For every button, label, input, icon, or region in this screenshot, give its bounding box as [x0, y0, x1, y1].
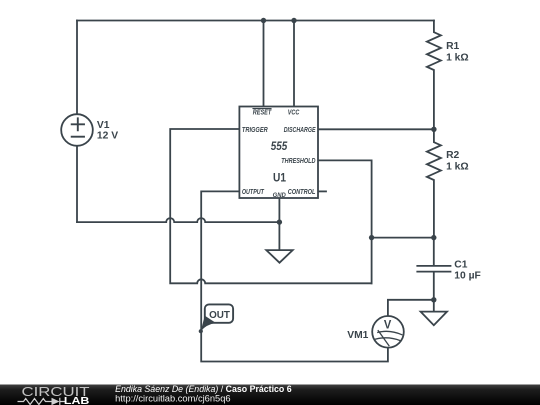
- svg-text:555: 555: [271, 141, 288, 153]
- node dot THRESHOLD branch: [369, 235, 374, 240]
- wire TRIGGER loop: [170, 129, 371, 283]
- node dot C1 bottom: [431, 297, 436, 302]
- node dot top RESET: [261, 18, 266, 23]
- OUT flag tail: [201, 316, 216, 332]
- ground under C1: [421, 300, 447, 325]
- node dot C1 top: [431, 235, 436, 240]
- VM1 needle: [378, 331, 389, 346]
- resistor R1: [427, 21, 441, 130]
- svg-text:R1: R1: [446, 41, 459, 52]
- svg-text:OUT: OUT: [209, 310, 230, 321]
- wire CONTROL stub: [318, 190, 326, 192]
- svg-text:http://circuitlab.com/cj6n5q6: http://circuitlab.com/cj6n5q6: [115, 394, 231, 404]
- V1 plus sign: [72, 118, 84, 130]
- svg-text:OUTPUT: OUTPUT: [242, 187, 264, 196]
- footer bar: [0, 385, 540, 405]
- node dot GND junction: [277, 219, 282, 224]
- flag OUT box: [205, 304, 233, 322]
- resistor R2: [427, 129, 441, 237]
- svg-text:VM1: VM1: [347, 330, 368, 341]
- wire VCC pin drop: [293, 21, 295, 107]
- svg-text:10 µF: 10 µF: [454, 271, 481, 282]
- ground under 555 GND: [266, 250, 292, 263]
- wire top rail V1 to R1: [77, 20, 434, 22]
- svg-text:12 V: 12 V: [97, 131, 118, 142]
- svg-text:V1: V1: [97, 120, 110, 131]
- wire RESET pin drop: [263, 21, 265, 107]
- svg-text:RESET: RESET: [253, 108, 272, 117]
- svg-text:R2: R2: [446, 150, 459, 161]
- V1 minus sign: [72, 136, 84, 138]
- svg-text:C1: C1: [454, 259, 467, 270]
- node dot R1 R2 DISCHARGE: [431, 127, 436, 132]
- svg-text:1 kΩ: 1 kΩ: [446, 53, 469, 64]
- capacitor C1: [417, 238, 450, 300]
- wire V1 top lead: [76, 21, 78, 115]
- IC U1 555 timer body: [239, 107, 318, 199]
- logo resistor diode glyph: [18, 398, 67, 405]
- wire THRESHOLD to node: [318, 160, 372, 283]
- voltmeter VM1: [372, 316, 404, 348]
- svg-text:VCC: VCC: [288, 108, 300, 117]
- node dot top VCC: [291, 18, 296, 23]
- wire V1 bottom lead: [76, 146, 78, 222]
- svg-text:U1: U1: [273, 171, 286, 185]
- svg-text:CONTROL: CONTROL: [288, 187, 316, 196]
- svg-text:GND: GND: [273, 192, 287, 199]
- svg-text:TRIGGER: TRIGGER: [242, 125, 268, 134]
- wire VM1 top to C1 bottom node: [388, 300, 434, 316]
- svg-text:LAB: LAB: [64, 396, 90, 405]
- wire 555 GND pin down: [278, 198, 280, 250]
- svg-text:DISCHARGE: DISCHARGE: [284, 125, 317, 134]
- wire V1 minus to 555 GND with hops: [77, 218, 279, 222]
- wire OUTPUT pin left: [201, 191, 388, 361]
- VM1 meter arcs: [378, 331, 402, 334]
- voltage source V1: [61, 114, 93, 146]
- svg-text:V: V: [384, 318, 392, 332]
- RESET overline: [253, 108, 271, 110]
- wire THRESHOLD node branch to C1 top: [372, 237, 434, 239]
- svg-text:THRESHOLD: THRESHOLD: [281, 156, 316, 165]
- svg-text:1 kΩ: 1 kΩ: [446, 162, 469, 173]
- wire DISCHARGE to R1-R2 node: [318, 128, 434, 130]
